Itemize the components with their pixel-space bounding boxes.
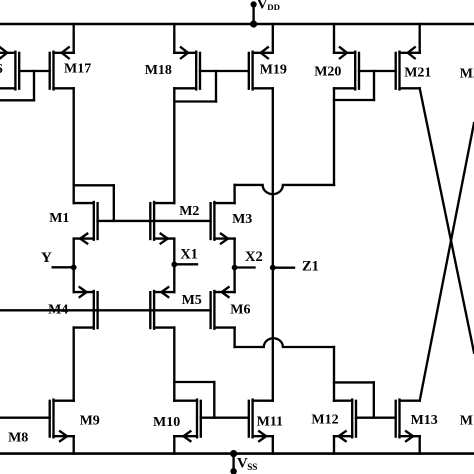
transistor M2 xyxy=(150,202,174,244)
wire M10 gate tie branch vertical xyxy=(213,382,215,418)
svg-text:M19: M19 xyxy=(260,62,287,77)
crossing wire from upper right to M13 drain (diagonal) xyxy=(420,123,474,401)
wire M19 source to VDD xyxy=(272,24,274,53)
VSS terminal dot xyxy=(230,468,237,474)
transistor M19 xyxy=(249,47,273,90)
transistor M3 xyxy=(211,202,235,244)
wire M20 drain to M3 source horizontal (left part) xyxy=(235,184,263,186)
svg-text:X2: X2 xyxy=(245,249,263,265)
transistor M13 xyxy=(396,400,420,442)
wire gate M12-M13 xyxy=(356,417,396,419)
svg-text:M3: M3 xyxy=(232,212,252,227)
wire hop over Z1 vertical (lower) xyxy=(264,338,283,347)
node X1 stub xyxy=(174,263,197,265)
wire M12 source to VSS xyxy=(333,436,335,453)
wire M12 gate tie branch horizontal xyxy=(334,381,374,383)
wire M11 source to VSS xyxy=(272,436,274,453)
transistor M1 xyxy=(74,202,98,244)
transistor M5 xyxy=(150,287,174,329)
wire gate M16-M17 xyxy=(19,70,50,72)
wire M21 source to VDD xyxy=(419,24,421,53)
svg-text:M11: M11 xyxy=(257,415,283,430)
wire M16 gate-drain tie vertical xyxy=(33,71,35,100)
svg-text:V: V xyxy=(257,0,268,12)
svg-text:M22: M22 xyxy=(460,67,474,82)
wire M3 drain to M6 source (node X2) xyxy=(233,239,235,293)
svg-text:M16: M16 xyxy=(0,62,3,77)
transistor M11 xyxy=(249,400,273,442)
wire M3 source vertical xyxy=(233,185,235,203)
svg-text:M14: M14 xyxy=(460,414,474,429)
wire gate M1-M2-M3 xyxy=(98,220,211,222)
wire M20 source to VDD xyxy=(333,24,335,53)
wire M1 drain to M4 source (node Y) xyxy=(73,239,75,293)
wire M18 source to VDD xyxy=(173,24,175,53)
svg-text:M20: M20 xyxy=(314,64,341,79)
node Y dot xyxy=(71,265,77,271)
wire M20 gate-drain tie vertical xyxy=(373,71,375,100)
VSS rail xyxy=(0,452,474,455)
wire M10 source to VSS xyxy=(173,436,175,453)
VDD rail junction dot xyxy=(250,20,257,27)
VSS terminal stub xyxy=(232,454,234,472)
transistor M20 xyxy=(334,47,359,90)
wire gate M18-M19 xyxy=(200,70,249,72)
wire M4 drain to M9 drain xyxy=(73,328,75,401)
wire M1 gate tie branch vertical xyxy=(113,185,115,221)
node Z1 dot xyxy=(270,265,276,271)
wire M10 gate tie branch horizontal xyxy=(174,381,214,383)
svg-text:DD: DD xyxy=(267,2,280,12)
transistor M16 (partial, clipped at left edge) xyxy=(0,47,19,90)
svg-text:M13: M13 xyxy=(411,413,438,428)
svg-text:M2: M2 xyxy=(179,204,199,219)
wire M12 gate tie branch vertical xyxy=(373,382,375,417)
wire gate M4-M5-M6 (from left edge) xyxy=(0,309,211,311)
wire M18 gate-drain tie vertical xyxy=(215,71,217,102)
wire M12 drain vertical xyxy=(333,347,335,401)
wire M18 gate-drain tie horizontal xyxy=(174,100,216,102)
svg-text:M5: M5 xyxy=(182,293,202,308)
node X2 dot xyxy=(232,265,238,271)
wire M18 drain to M2 source xyxy=(173,88,175,203)
wire hop over Z1 vertical (upper) xyxy=(263,185,283,194)
wire M6 drain to M12 horizontal (right part) xyxy=(283,346,334,348)
svg-text:M9: M9 xyxy=(80,413,100,428)
VDD terminal stub xyxy=(252,4,254,24)
transistor M6 xyxy=(211,287,235,329)
transistor M21 xyxy=(396,47,420,90)
svg-text:Y: Y xyxy=(41,250,52,266)
transistor M9 xyxy=(50,400,74,442)
wire M20 gate-drain tie horizontal xyxy=(334,99,374,101)
transistor M4 xyxy=(74,287,98,329)
svg-text:M12: M12 xyxy=(311,413,338,428)
node X2 stub xyxy=(235,266,255,268)
wire M20 drain to M3 source horizontal (right part) xyxy=(283,184,334,186)
svg-text:M18: M18 xyxy=(145,63,172,78)
wire M2 drain to M5 source (node X1) xyxy=(173,239,175,293)
svg-text:M10: M10 xyxy=(153,415,180,430)
svg-text:X1: X1 xyxy=(180,247,198,263)
transistor M12 xyxy=(334,400,356,442)
wire M20 drain vertical xyxy=(333,88,335,185)
svg-text:M4: M4 xyxy=(48,303,68,318)
node Z1 stub xyxy=(273,267,294,269)
wire M17 source to VDD xyxy=(73,24,75,53)
svg-text:SS: SS xyxy=(247,462,257,472)
wire gate M10-M11 xyxy=(201,417,249,419)
VDD terminal dot xyxy=(251,1,257,7)
wire node Z1 vertical (M19 drain to M11 drain) xyxy=(272,88,274,400)
wire M5 drain to M10 drain xyxy=(173,328,175,401)
svg-text:M8: M8 xyxy=(8,430,28,445)
wire M1 gate tie branch horizontal xyxy=(74,184,114,186)
wire M13 source to VSS xyxy=(419,436,421,453)
wire M17 drain to M1 source xyxy=(73,88,75,203)
svg-text:M1: M1 xyxy=(49,211,69,226)
VDD rail xyxy=(0,23,474,26)
node X1 dot xyxy=(171,262,177,268)
transistor M10 xyxy=(174,400,201,442)
wire M8-M9 gate (from left edge) xyxy=(0,417,50,419)
crossing wire M21 drain to lower right (diagonal) xyxy=(420,88,474,352)
VSS rail junction dot xyxy=(230,450,237,457)
svg-text:M17: M17 xyxy=(64,62,91,77)
svg-text:Z1: Z1 xyxy=(302,258,319,274)
wire gate M20-M21 xyxy=(359,70,396,72)
node Y stub xyxy=(53,266,74,268)
wire M9 source to VSS xyxy=(73,436,75,453)
transistor M17 xyxy=(50,47,74,90)
wire M6 drain vertical xyxy=(233,328,235,347)
wire M6 drain to M12 horizontal (left part) xyxy=(235,346,264,348)
svg-text:M6: M6 xyxy=(230,303,250,318)
wire M16 gate-drain tie horizontal xyxy=(0,99,34,101)
svg-text:M21: M21 xyxy=(404,66,431,81)
transistor M18 xyxy=(174,47,200,90)
